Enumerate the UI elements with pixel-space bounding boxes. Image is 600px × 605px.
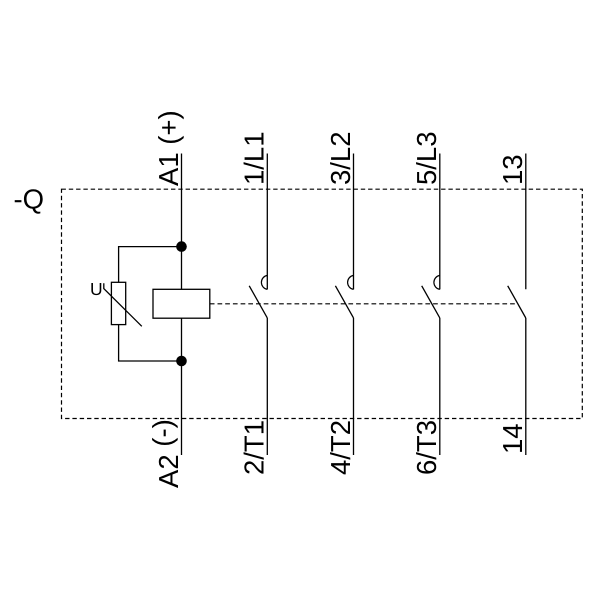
wire: 2/T1 terminal stub xyxy=(266,318,268,455)
wire: A1 terminal stub down to coil xyxy=(181,154,183,290)
wire: 13 terminal stub xyxy=(525,154,527,290)
main contact pole 1 moving contact xyxy=(249,286,267,318)
svg-text:U: U xyxy=(90,279,103,299)
auxiliary contact NO moving contact xyxy=(508,286,526,318)
varistor RV1 (surge suppressor body) xyxy=(111,282,125,324)
svg-text:14: 14 xyxy=(497,423,528,454)
main contact pole 3 moving contact xyxy=(422,286,440,318)
main contact pole 2 fixed contact (semicircle) xyxy=(348,275,354,289)
varistor diagonal stroke with tick xyxy=(104,283,142,326)
node: junction of A1 wire and varistor branch xyxy=(176,241,187,252)
svg-text:13: 13 xyxy=(497,154,528,185)
wire: varistor top branch xyxy=(119,247,182,283)
wire: 14 terminal stub xyxy=(525,318,527,455)
svg-text:5/L3: 5/L3 xyxy=(411,131,442,185)
node: junction of A2 wire and varistor branch xyxy=(176,356,187,367)
svg-text:4/T2: 4/T2 xyxy=(325,420,356,475)
wire: varistor bottom branch xyxy=(119,325,182,361)
mechanical linkage (dashed actuator line) xyxy=(210,303,517,305)
svg-text:3/L2: 3/L2 xyxy=(325,131,356,185)
svg-text:A1 (+): A1 (+) xyxy=(153,110,184,186)
wire: 3/L2 terminal stub xyxy=(353,154,355,290)
wire: 4/T2 terminal stub xyxy=(353,318,355,455)
wire: coil bottom to A2 terminal stub xyxy=(181,318,183,455)
wire: 5/L3 terminal stub xyxy=(439,154,441,290)
wire: 6/T3 terminal stub xyxy=(439,318,441,455)
svg-text:6/T3: 6/T3 xyxy=(411,420,442,475)
svg-text:1/L1: 1/L1 xyxy=(239,131,270,185)
svg-text:-Q: -Q xyxy=(14,184,45,215)
wire: 1/L1 terminal stub xyxy=(266,154,268,290)
main contact pole 3 fixed contact (semicircle) xyxy=(434,275,440,289)
svg-text:2/T1: 2/T1 xyxy=(239,420,270,475)
contactor outline (dashed enclosure) xyxy=(62,189,583,418)
svg-text:A2 (-): A2 (-) xyxy=(147,419,184,488)
coil U1 (contactor operating coil) xyxy=(153,289,210,318)
main contact pole 1 fixed contact (semicircle) xyxy=(261,275,267,289)
main contact pole 2 moving contact xyxy=(335,286,353,318)
